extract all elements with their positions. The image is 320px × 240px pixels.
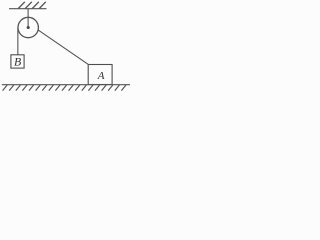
left rope (to block B) bbox=[17, 28, 19, 55]
pulley wheel bbox=[18, 17, 38, 37]
block B bbox=[11, 55, 24, 68]
svg-text:B: B bbox=[14, 55, 21, 69]
ceiling hatching bbox=[18, 2, 46, 9]
ceiling line bbox=[9, 8, 47, 10]
ground hatching bbox=[3, 85, 126, 91]
pulley support rod bbox=[27, 9, 29, 28]
svg-text:A: A bbox=[97, 70, 105, 82]
diagonal rope (to block A) bbox=[38, 30, 88, 65]
block A bbox=[88, 65, 112, 85]
ground line bbox=[2, 84, 130, 86]
pulley axle dot bbox=[27, 26, 30, 29]
